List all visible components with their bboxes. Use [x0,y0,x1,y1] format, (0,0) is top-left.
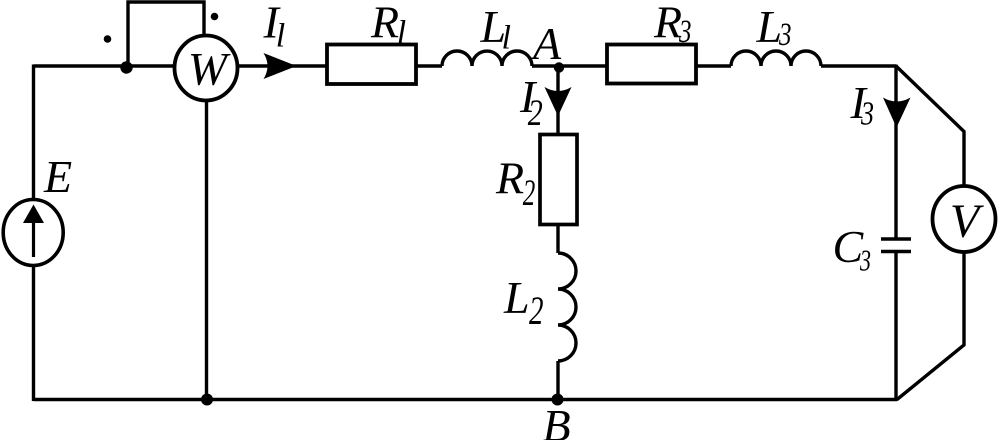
wire: L2 to node B [556,361,559,400]
wire: left wire upper segment [32,65,35,202]
wire: top wire R3 to L3 [696,64,731,67]
wire: bottom wire [34,398,898,401]
source E circle [3,200,63,266]
svg-text:3: 3 [860,96,874,133]
wire: R2 to L2 [556,224,559,253]
svg-text:W: W [188,44,231,96]
inductor L3 [731,51,821,66]
wire: C3 to bottom wire [894,253,897,401]
source E arrow [32,216,35,257]
svg-text:R: R [370,0,399,48]
svg-text:L: L [503,272,530,323]
wire: top wire left segment (left corner to W junction) [34,64,177,67]
node B dot [552,394,564,406]
svg-text:3: 3 [859,243,871,278]
wire: top wire L1 to node A to R3 [532,64,607,67]
voltmeter V circle [933,186,996,252]
wire: top wire from W to R1 [237,64,327,67]
svg-text:A: A [530,18,562,69]
wire: diagonal top-right to voltmeter [896,66,964,187]
wire: wattmeter current branch down to bottom wire [205,100,208,400]
svg-text:l: l [502,20,511,57]
svg-text:l: l [276,18,285,55]
svg-text:B: B [543,400,571,440]
capacitor C3 bottom plate [881,250,911,254]
wattmeter voltage coil loop wire [128,2,204,66]
resistor R2 [540,135,577,225]
node A dot [554,62,564,72]
current arrow I3 [883,98,911,128]
svg-text:R: R [653,0,682,48]
current arrow I2 [545,87,572,116]
capacitor C3 top plate [881,237,911,241]
wire: top wire L3 to top-right corner [821,64,896,67]
inductor L1 [442,51,532,66]
svg-text:3: 3 [778,17,791,53]
wattmeter W circle [175,36,238,101]
svg-text:l: l [397,15,406,52]
polarity dot right [211,13,219,21]
inductor L2 [558,253,576,361]
node junction dot bottom (wattmeter to bottom wire) [201,394,213,406]
svg-text:R: R [495,153,524,204]
current arrow I1 [264,53,297,79]
polarity dot left [104,35,112,43]
node junction dot left (wattmeter tap) [120,61,132,73]
resistor R1 [327,45,416,85]
wire: top wire R1 to L1 [416,64,442,67]
svg-text:2: 2 [523,173,536,214]
svg-text:E: E [43,151,72,202]
resistor R3 [607,45,696,84]
wire: branch node A down to R2 [556,66,559,134]
wire: right branch down (C3 branch) [894,65,897,238]
wire: left wire lower segment [32,265,35,402]
svg-text:2: 2 [529,288,544,333]
wire: voltmeter down and diagonal to bottom wire [897,252,964,400]
svg-text:2: 2 [528,93,543,134]
svg-text:V: V [950,195,984,248]
svg-text:3: 3 [678,14,691,50]
